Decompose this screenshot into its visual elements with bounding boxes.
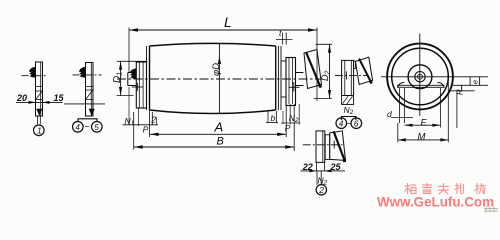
detail 2 balloon 4~5 — [78, 119, 97, 122]
svg-text:d: d — [387, 109, 392, 119]
svg-text:P: P — [285, 123, 291, 133]
detail 2 plate — [86, 63, 94, 117]
left bearing cross mark — [132, 86, 144, 88]
detail 2 centerline — [73, 74, 102, 76]
detail 3 hatch box — [342, 96, 354, 105]
detail 1 balloon 1 — [34, 125, 45, 136]
right wedge (locking element) — [304, 50, 322, 89]
detail 4 hub plate — [316, 131, 325, 163]
detail 2 inner lines — [86, 86, 94, 88]
right boss — [281, 61, 286, 97]
detail 1 dim line 20/15 — [16, 101, 63, 103]
detail 4 dim 22/25 — [315, 162, 317, 171]
detail 1 weld fan — [29, 67, 36, 78]
end view chord lines — [397, 84, 445, 86]
end view crosshair — [381, 76, 488, 78]
svg-text:P: P — [143, 124, 149, 134]
detail 4 mid block — [325, 135, 330, 160]
detail 3 hub plate — [342, 60, 354, 95]
svg-text:2: 2 — [318, 185, 324, 195]
detail 4 centerline — [303, 144, 343, 146]
end view left hook — [398, 82, 405, 87]
dimension D2 — [316, 43, 333, 45]
right shaft stub — [296, 72, 304, 74]
svg-text:6: 6 — [354, 119, 359, 128]
right bearing cross mark — [289, 86, 300, 88]
label b with line — [267, 111, 269, 123]
svg-text:~: ~ — [85, 122, 90, 132]
svg-text:R: R — [456, 89, 465, 95]
drum mid seam line — [218, 44, 220, 114]
end view circles — [387, 44, 453, 110]
detail 3 balloon 4~6 — [341, 117, 356, 121]
svg-text:Www.GeLufu.Com: Www.GeLufu.Com — [377, 195, 494, 211]
detail 1 inner lines — [36, 86, 43, 88]
svg-text:A: A — [214, 119, 224, 134]
svg-text:φD: φD — [211, 63, 222, 76]
svg-text:B: B — [217, 135, 224, 147]
detail 2 lower line — [64, 103, 105, 105]
dimension D1 — [117, 60, 148, 62]
phi-D diameter arrow — [218, 57, 221, 65]
svg-text:4: 4 — [339, 119, 344, 128]
detail 2 weld triangle — [89, 109, 95, 116]
extension lines A/B left — [149, 110, 151, 137]
svg-text:e: e — [471, 80, 480, 84]
right end cap — [277, 46, 279, 110]
label 2 with line — [151, 112, 153, 125]
svg-text:4: 4 — [75, 123, 80, 132]
detail 4 wedge — [330, 131, 346, 161]
left shaft stub — [128, 72, 137, 74]
dimension B — [134, 146, 295, 148]
detail 1 weld triangle — [36, 109, 42, 116]
detail 3 centerline — [335, 74, 368, 76]
svg-text:25: 25 — [330, 162, 342, 172]
extension lines A/B right — [285, 104, 287, 137]
detail 2 weld fan — [79, 67, 86, 78]
svg-text:2: 2 — [150, 114, 156, 124]
corner tiny gray watermark — [484, 207, 498, 213]
svg-text:L: L — [224, 14, 232, 30]
detail 1 centerline — [22, 75, 48, 77]
detail 1 plate — [36, 62, 43, 116]
dimension E — [405, 124, 441, 126]
watermark hanzi — [405, 184, 485, 195]
left end cap — [146, 46, 148, 110]
detail 3 connector — [354, 61, 356, 69]
svg-text:1: 1 — [37, 126, 42, 136]
dimension M — [398, 139, 449, 141]
end view right hook — [438, 82, 445, 87]
right bearing block — [286, 58, 296, 106]
svg-text:E: E — [421, 118, 428, 128]
detail 4 label N2 — [316, 171, 318, 185]
drum shell outline — [150, 43, 276, 46]
left bearing block — [136, 62, 146, 108]
svg-text:15: 15 — [54, 93, 65, 103]
detail 3 wedge — [355, 57, 372, 84]
dimension d — [399, 88, 401, 123]
dimension A — [150, 133, 287, 135]
detail 4 balloon 2 — [316, 185, 326, 195]
main centerline — [117, 78, 322, 80]
left weld fan — [130, 68, 137, 78]
svg-text:M: M — [418, 132, 426, 143]
svg-text:5: 5 — [94, 123, 99, 132]
svg-text:20: 20 — [16, 93, 27, 103]
dimension L — [129, 29, 317, 31]
dimension t — [282, 33, 284, 45]
svg-text:22: 22 — [302, 162, 313, 172]
right side small dims e and R — [453, 84, 488, 86]
svg-text:b: b — [271, 113, 276, 123]
